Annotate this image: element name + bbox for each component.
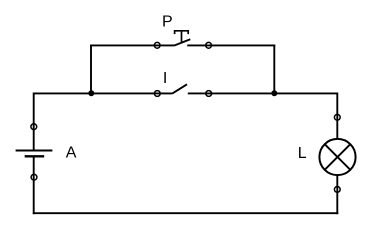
svg-text:I: I (163, 70, 167, 87)
junction left (88, 90, 94, 96)
wire bottom (33, 212, 338, 214)
battery bottom terminal (31, 174, 37, 180)
switch I left terminal (154, 91, 160, 97)
switch I right terminal (206, 91, 212, 97)
wire right vertical upper (336, 93, 338, 140)
lamp L cross (325, 144, 351, 170)
pushbutton P left terminal (154, 42, 160, 48)
pushbutton P blade (174, 39, 190, 45)
battery top terminal (31, 124, 37, 130)
svg-text:L: L (298, 145, 307, 162)
pushbutton P right terminal (206, 42, 212, 48)
junction right (271, 90, 277, 96)
wire top branch left vertical (90, 45, 92, 94)
wire top branch right vertical (273, 45, 275, 94)
wire middle branch left segment (34, 92, 173, 94)
battery A short plate (25, 155, 45, 157)
battery A long plate (16, 150, 53, 152)
wire left vertical upper (33, 93, 35, 151)
lamp bottom terminal (334, 187, 340, 193)
wire right vertical lower (336, 175, 338, 214)
switch I blade (172, 84, 187, 93)
lamp top terminal (334, 114, 340, 120)
wire top branch right horizontal (187, 44, 275, 46)
wire middle branch right segment (188, 92, 337, 94)
pushbutton P plunger (175, 31, 189, 42)
lamp L circle (319, 139, 355, 175)
wire left vertical lower (33, 156, 35, 214)
wire top branch left horizontal (90, 44, 174, 46)
svg-text:A: A (66, 145, 77, 162)
svg-text:P: P (162, 14, 173, 31)
